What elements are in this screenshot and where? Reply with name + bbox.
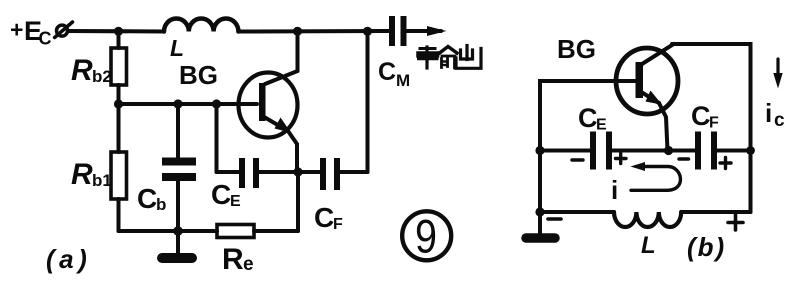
svg-text:R: R <box>222 243 244 276</box>
svg-text:BG: BG <box>179 60 218 90</box>
capacitor CF (b) <box>695 132 751 170</box>
svg-text:F: F <box>709 115 719 132</box>
svg-text:C: C <box>39 29 52 49</box>
capacitor CE (b) <box>590 132 696 170</box>
node ground corner (b) <box>535 207 544 216</box>
ground (b) <box>526 212 555 238</box>
terminal +Ec <box>55 22 73 38</box>
svg-text:C: C <box>314 202 334 233</box>
svg-text:(b): (b) <box>687 232 726 262</box>
label (b) <box>687 232 726 262</box>
svg-text:L: L <box>170 35 184 61</box>
label CF (b) <box>691 101 719 132</box>
svg-text:i: i <box>765 98 772 128</box>
wire base rail <box>119 102 258 106</box>
inductor L <box>164 18 238 31</box>
label CE (b) <box>578 103 607 134</box>
polarity plus CF <box>720 158 731 169</box>
polarity minus CF <box>679 157 689 160</box>
label CE (a) <box>211 179 241 210</box>
current loop arrow i <box>631 162 681 190</box>
label i <box>611 175 618 205</box>
label Rb2 <box>71 54 112 87</box>
label (a) <box>46 244 91 274</box>
label L <box>170 35 184 61</box>
node ground junction <box>173 226 183 236</box>
node Cb top junction <box>173 99 182 108</box>
label RE <box>222 243 254 276</box>
svg-text:9: 9 <box>415 210 437 263</box>
label ic <box>765 98 785 131</box>
svg-text:i: i <box>611 175 618 205</box>
label Cb <box>137 183 166 214</box>
label BG (a) <box>179 60 218 90</box>
resistor Rb2 <box>111 31 127 104</box>
wire bottom rail right (b) <box>681 210 750 214</box>
node junction top-left <box>114 27 123 36</box>
label BG (b) <box>557 34 596 64</box>
svg-text:R: R <box>71 54 93 87</box>
wire base left (b) <box>540 81 636 212</box>
label CF (a) <box>314 202 343 233</box>
node emitter junction (b) <box>664 146 673 155</box>
ground (a) <box>162 231 192 258</box>
node left rail junction (b) <box>535 146 544 155</box>
node junction collector top <box>293 27 302 36</box>
wire top rail left <box>68 29 164 34</box>
label L (b) <box>641 232 656 259</box>
label 输出 (output) drawn strokes <box>419 46 482 69</box>
label CM <box>378 58 410 90</box>
arrow ic <box>773 59 782 89</box>
resistor Rb1 <box>111 104 127 231</box>
svg-text:+: + <box>10 17 23 43</box>
resistor RE <box>217 225 298 238</box>
figure number 9 circle <box>402 210 451 263</box>
svg-text:E: E <box>596 117 607 134</box>
char 输 <box>419 47 458 69</box>
polarity minus CE <box>572 158 583 161</box>
svg-text:(a): (a) <box>46 244 91 274</box>
capacitor CE (a) <box>217 104 299 188</box>
wire collector top (b) <box>672 44 751 212</box>
svg-text:b2: b2 <box>92 67 112 86</box>
svg-text:C: C <box>578 103 598 133</box>
capacitor Cb <box>162 104 196 231</box>
svg-text:C: C <box>378 58 396 86</box>
capacitor CF (a) <box>298 31 368 190</box>
inductor L (b) <box>614 212 681 227</box>
node base-Rb junction <box>114 99 123 108</box>
wire middle rail (b) <box>540 149 591 153</box>
wire bottom rail left (b) <box>540 210 614 214</box>
svg-text:M: M <box>396 71 410 90</box>
svg-text:C: C <box>691 101 711 131</box>
svg-text:b: b <box>156 195 166 214</box>
transistor BG (b) <box>616 44 678 151</box>
svg-text:L: L <box>641 232 656 259</box>
svg-text:F: F <box>333 216 343 233</box>
transistor BG (a) <box>239 71 298 172</box>
wire emitter to bottom rail <box>296 172 300 231</box>
capacitor CM <box>389 16 447 46</box>
svg-text:E: E <box>230 193 241 210</box>
polarity plus bottom right (b) <box>728 215 743 230</box>
node CE branch junction <box>212 99 221 108</box>
node right rail junction (b) <box>746 146 755 155</box>
node junction CF top <box>363 27 372 36</box>
polarity plus CE <box>616 154 627 164</box>
wire collector vertical <box>296 31 300 71</box>
svg-text:C: C <box>137 183 157 214</box>
label Rb1 <box>71 158 112 191</box>
svg-text:BG: BG <box>557 34 596 64</box>
svg-text:e: e <box>243 254 254 275</box>
wire bottom rail <box>119 229 218 233</box>
label +Ec <box>10 16 52 49</box>
svg-text:R: R <box>71 158 93 191</box>
node emitter junction <box>293 167 302 176</box>
svg-text:b1: b1 <box>92 171 112 190</box>
svg-text:c: c <box>774 110 785 131</box>
char 出 <box>456 46 481 69</box>
svg-text:C: C <box>211 179 231 210</box>
polarity minus near ground (b) <box>548 217 561 221</box>
wire top rail right <box>238 29 390 34</box>
